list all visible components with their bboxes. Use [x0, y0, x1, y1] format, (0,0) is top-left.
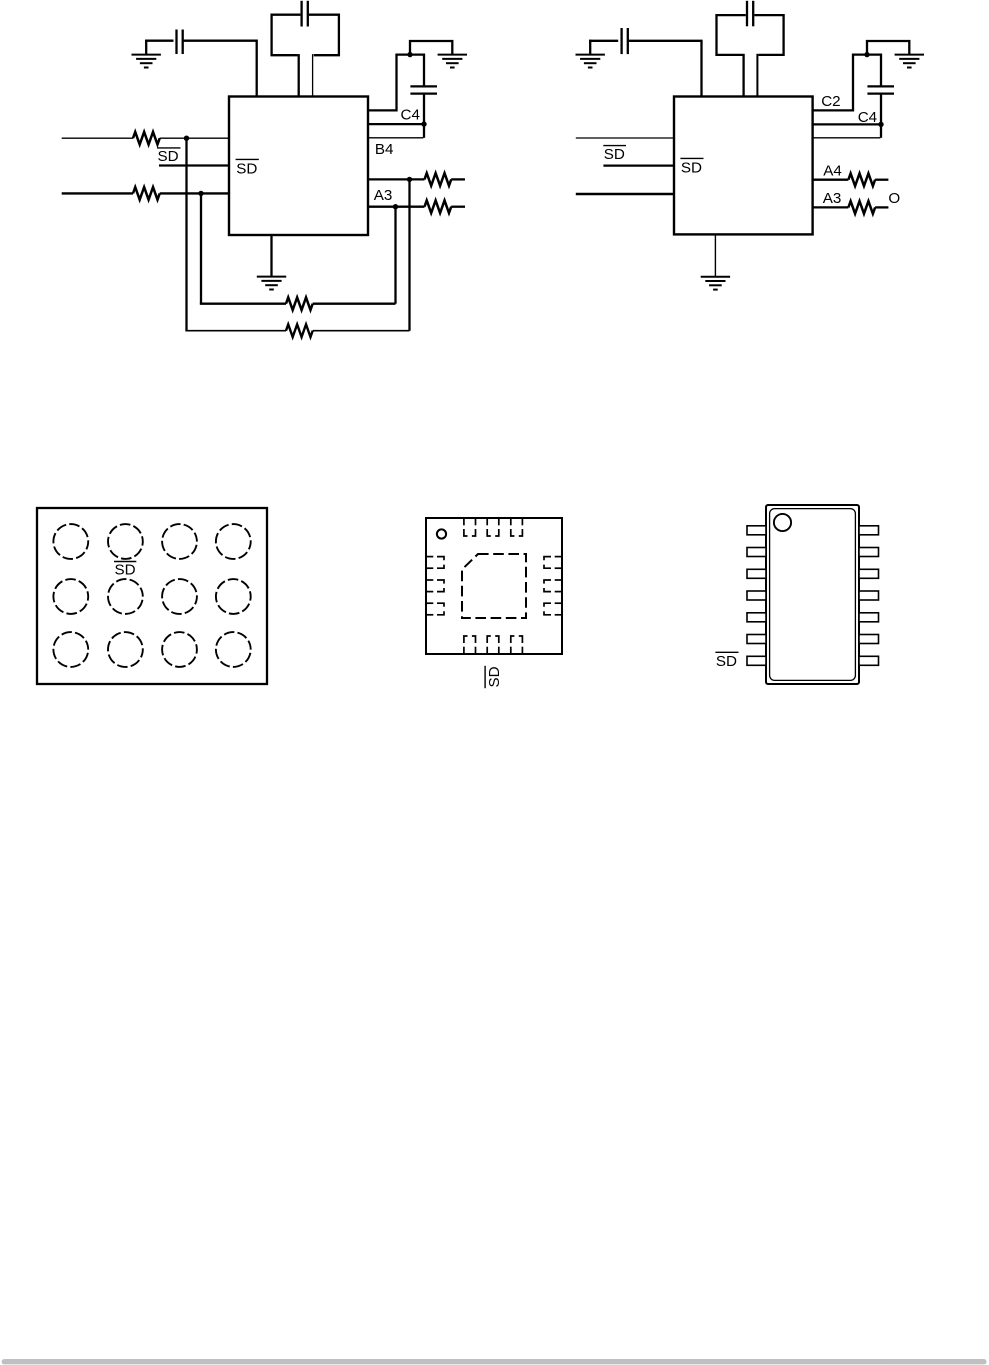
wire leg left to U2 — [742, 54, 744, 98]
wire cap top lead — [880, 54, 882, 87]
label C2 — [821, 93, 840, 110]
svg-text:SD: SD — [236, 160, 257, 177]
capacitor C6 — [622, 28, 628, 54]
wire ground to C6 cap — [589, 40, 618, 42]
wire feedback left outer — [185, 138, 187, 331]
capacitor C5 — [747, 1, 753, 27]
wire U1 ground stub — [270, 235, 272, 277]
wire to ground — [867, 41, 909, 55]
QFN right pads pins 9-11 — [544, 557, 562, 615]
QFN pin-1 marker — [437, 529, 446, 538]
svg-text:A4: A4 — [823, 163, 842, 180]
wire R2 to U1 — [160, 192, 229, 194]
wire feedback right outer — [408, 179, 410, 330]
ground — [701, 277, 730, 290]
wire pin B4 mid — [368, 123, 424, 125]
wire cap bottom lead — [423, 94, 425, 138]
overline SD pin 7 — [715, 651, 738, 653]
overline SD — [603, 145, 626, 147]
label SD pin — [236, 160, 257, 177]
resistor R7 — [848, 173, 875, 186]
label O output — [888, 190, 900, 207]
capacitor C4 — [410, 86, 437, 93]
wire leg right to U2 — [756, 54, 758, 98]
resistor R6 — [425, 200, 452, 213]
QFN left pads pins 1-3 — [426, 557, 444, 615]
wire pin A3 out — [813, 206, 849, 208]
QFN exposed pad — [462, 554, 526, 618]
wire C6 to U2 top — [628, 41, 702, 98]
capacitor C7 — [867, 86, 894, 93]
label SD pin 7 — [716, 653, 737, 670]
junction node — [407, 177, 412, 182]
overline SD — [157, 147, 181, 149]
wire pin C4 mid — [813, 123, 881, 125]
QFN bottom pads pins 6-8 — [464, 636, 523, 654]
wire R5 out — [451, 178, 465, 180]
wire SD to U2 — [603, 164, 674, 166]
ground — [895, 55, 924, 68]
wire feedback right inner — [394, 207, 396, 304]
svg-text:C4: C4 — [858, 109, 877, 126]
junction node — [393, 204, 398, 209]
BGA package outline — [37, 508, 267, 684]
label A4 — [823, 163, 842, 180]
resistor R3 — [286, 297, 313, 310]
svg-text:A3: A3 — [823, 190, 842, 207]
wire R8 out — [875, 206, 888, 208]
wire pin A4 out — [813, 179, 849, 181]
capacitor C2 — [177, 30, 183, 55]
svg-text:B4: B4 — [375, 141, 394, 158]
resistor R4 — [286, 324, 313, 337]
wire pin C4 up — [368, 55, 424, 111]
op-amp IC U1 — [229, 97, 368, 236]
wire C2 to U1 top — [183, 41, 257, 98]
svg-text:SD: SD — [604, 146, 625, 163]
footer rule bar — [2, 1359, 987, 1364]
label A3 — [823, 190, 842, 207]
wire pin A4 out — [368, 178, 425, 180]
SOIC body inner line — [770, 509, 856, 681]
svg-text:SD: SD — [158, 148, 179, 165]
ground — [438, 55, 467, 68]
wire ground stub — [589, 40, 591, 55]
resistor R8 — [848, 201, 875, 214]
wire input A — [62, 137, 133, 139]
wire feedback bottom inner right — [313, 303, 396, 305]
overline SD ball — [114, 561, 136, 563]
wire feedback bottom inner left — [200, 303, 286, 305]
overline SD pin — [680, 157, 703, 159]
wire feedback bottom outer left — [186, 330, 286, 332]
capacitor C1 — [302, 1, 308, 27]
QFN top pads pins 14-16 — [464, 518, 523, 536]
resistor R2 — [133, 187, 160, 200]
wire SD to U1 — [159, 164, 229, 166]
op-amp IC U2 — [674, 97, 813, 235]
SOIC package body — [766, 505, 859, 684]
SOIC pin-1 marker — [774, 514, 791, 531]
wire loop right half (crystal network) — [754, 15, 783, 55]
wire input B — [576, 193, 674, 195]
SOIC right pins 8-14 — [859, 526, 879, 666]
wire feedback bottom outer right — [313, 330, 410, 332]
svg-text:C4: C4 — [401, 107, 420, 124]
wire ground to C2 cap — [145, 40, 173, 42]
wire R6 out — [451, 206, 465, 208]
wire input B — [62, 192, 133, 194]
wire ground stub — [145, 40, 147, 55]
ground — [576, 55, 605, 68]
wire loop left half (crystal network) — [272, 15, 301, 56]
resistor R5 — [425, 173, 452, 186]
svg-text:A3: A3 — [374, 187, 393, 204]
ground — [257, 277, 286, 290]
svg-text:SD: SD — [486, 666, 503, 687]
label C4 — [401, 107, 420, 124]
QFN package outline — [426, 518, 562, 654]
label SD input — [158, 148, 179, 165]
wire leg left to U1 — [298, 54, 300, 97]
junction node — [407, 52, 412, 57]
wire pin C4 lower — [813, 137, 881, 139]
wire pin B4 lower — [368, 137, 423, 139]
resistor R1 — [133, 132, 160, 145]
SOIC left pins 1-7 — [747, 526, 766, 666]
ground — [132, 55, 161, 68]
wire cap bottom lead — [880, 94, 882, 138]
junction node — [864, 52, 869, 57]
wire pin C2 up — [813, 55, 881, 111]
svg-text:SD: SD — [115, 562, 136, 579]
wire R1 to U1 — [160, 137, 229, 139]
svg-text:SD: SD — [681, 159, 702, 176]
wire input A — [576, 137, 674, 139]
svg-text:SD: SD — [716, 653, 737, 670]
overline SD pin — [236, 158, 259, 160]
junction node — [184, 136, 189, 141]
wire loop right half (crystal network) — [309, 15, 339, 56]
label SD input — [604, 146, 625, 163]
junction node — [198, 191, 203, 196]
svg-text:C2: C2 — [821, 93, 840, 110]
label SD ball — [115, 562, 136, 579]
BGA ball grid A1-C4 — [53, 524, 250, 667]
label A3 — [374, 187, 393, 204]
label C4 — [858, 109, 877, 126]
wire R7 out — [875, 179, 888, 181]
wire leg right to U1 — [312, 54, 314, 97]
label SD rotated — [485, 666, 503, 688]
wire to ground — [410, 41, 452, 55]
wire pin A3 out — [368, 206, 425, 208]
junction node — [421, 121, 426, 126]
wire feedback left inner — [200, 193, 202, 304]
svg-text:O: O — [888, 190, 900, 207]
wire U2 ground stub — [714, 234, 716, 276]
label SD pin — [681, 159, 702, 176]
wire cap top lead — [423, 54, 425, 87]
label B4 — [375, 141, 394, 158]
wire loop left half (crystal network) — [717, 15, 746, 55]
junction node — [878, 122, 883, 127]
